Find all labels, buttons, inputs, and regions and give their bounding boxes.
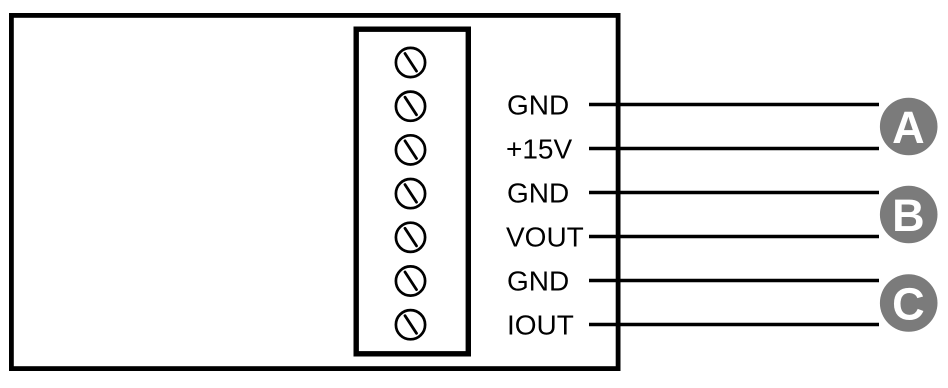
screw terminal 2	[396, 92, 425, 121]
callout B	[880, 186, 938, 244]
screw terminal 3	[396, 135, 425, 164]
svg-text:GND: GND	[507, 178, 569, 209]
enclosure outline	[11, 15, 618, 368]
screw terminal 4	[396, 179, 425, 208]
screw terminal 5	[396, 223, 425, 252]
svg-text:C: C	[892, 278, 925, 329]
callout A	[880, 98, 938, 156]
wire IOUT to C	[589, 323, 879, 327]
screw terminal 7	[396, 310, 425, 339]
svg-text:B: B	[892, 190, 925, 241]
wire GND to B	[589, 191, 879, 195]
wire VOUT to B	[589, 235, 879, 239]
svg-text:GND: GND	[507, 266, 569, 297]
callout C	[880, 274, 938, 332]
svg-text:VOUT: VOUT	[506, 222, 584, 253]
screw terminal 6	[396, 266, 425, 295]
wire GND to A	[589, 103, 879, 107]
wire GND to C	[589, 279, 879, 283]
svg-text:A: A	[892, 102, 925, 153]
svg-text:+15V: +15V	[506, 134, 572, 165]
screw terminal 1	[396, 48, 425, 77]
svg-text:GND: GND	[507, 90, 569, 121]
wire +15V to A	[589, 147, 879, 151]
terminal block TB1	[356, 29, 468, 354]
svg-text:IOUT: IOUT	[507, 310, 574, 341]
